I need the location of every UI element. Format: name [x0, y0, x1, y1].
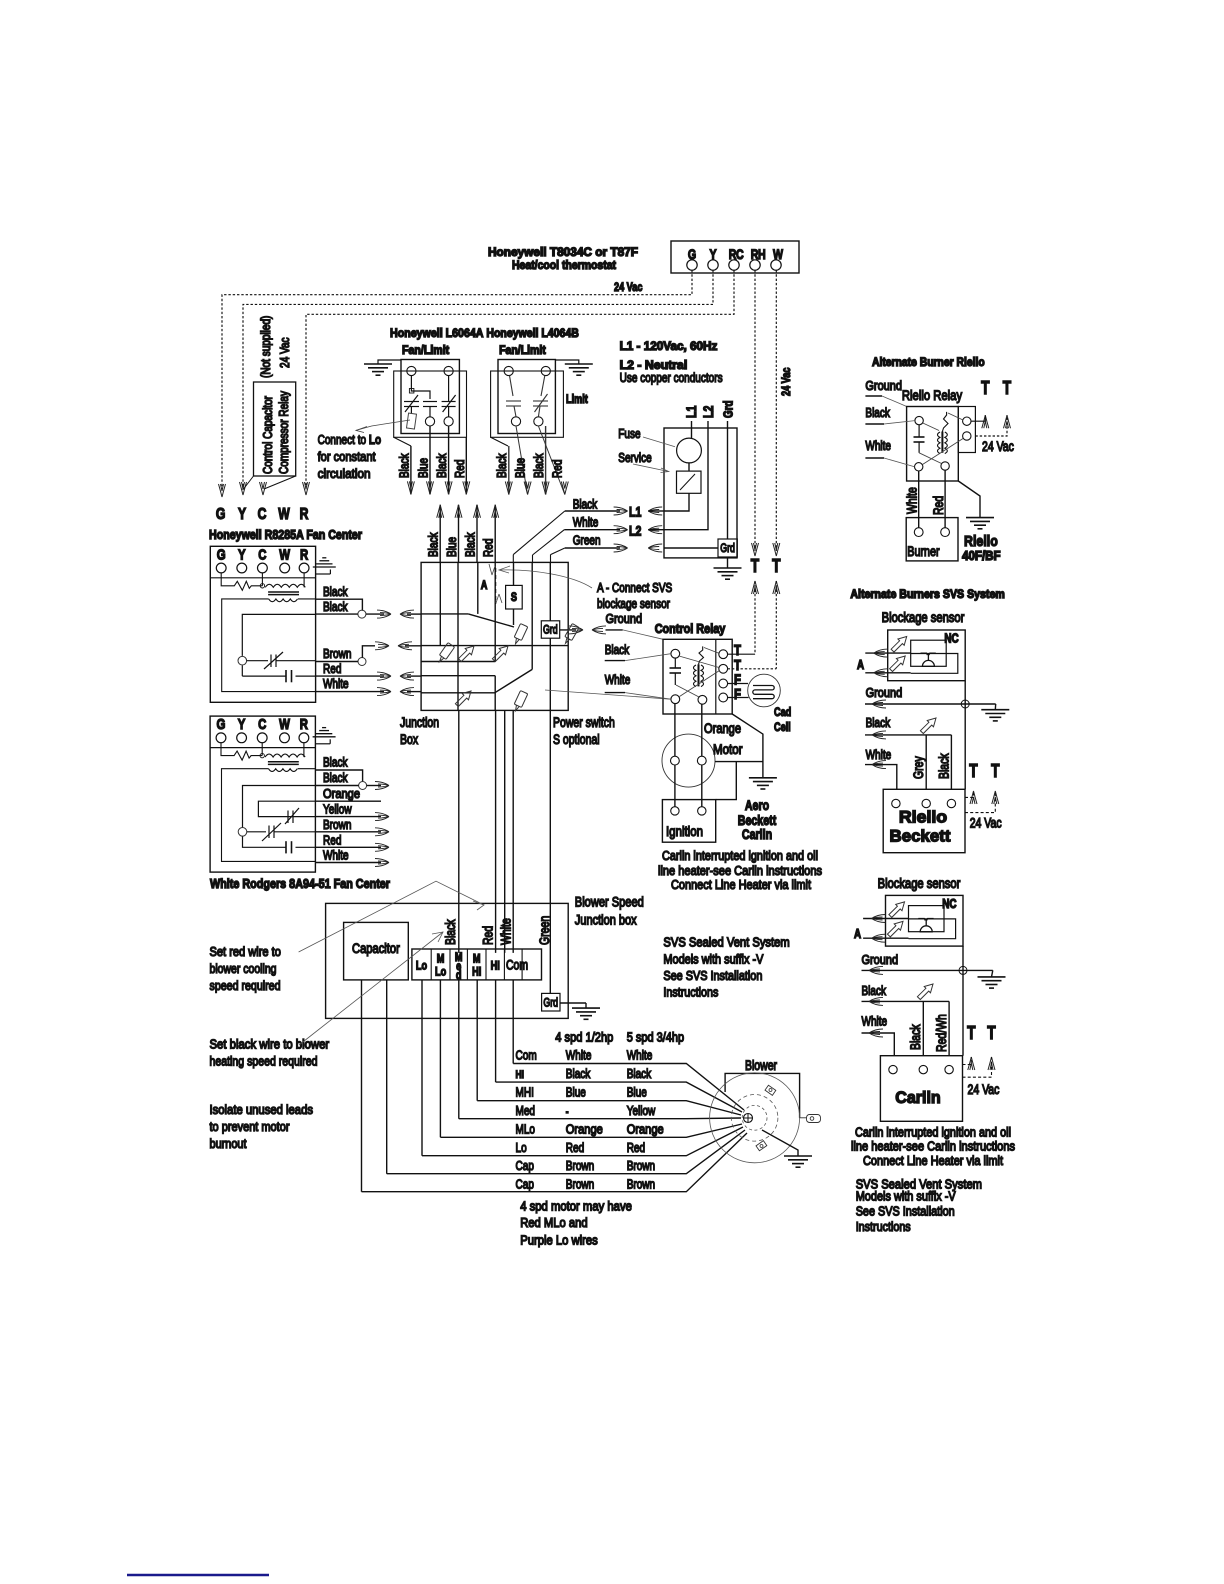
svg-text:W: W: [279, 716, 290, 733]
cad cell: [748, 674, 781, 707]
svg-text:Black: Black: [605, 642, 630, 657]
Grd wire: [727, 421, 729, 539]
svg-text:Fuse: Fuse: [618, 426, 640, 441]
thermostat terminal Y: [708, 260, 718, 270]
L4064B terminal bottom-right: [534, 417, 543, 426]
T T wires labels (RH/W to relay): [752, 543, 759, 556]
svg-text:Fan/Limit: Fan/Limit: [499, 343, 546, 357]
svg-text:A: A: [481, 578, 488, 592]
svg-text:blockage sensor: blockage sensor: [597, 596, 670, 611]
WR lead labels: [323, 755, 360, 863]
WR capacitor: [286, 841, 292, 853]
svg-text:Models with suffix -V: Models with suffix -V: [856, 1188, 956, 1203]
svg-text:HI: HI: [491, 959, 500, 973]
Riello burner wires: [918, 471, 920, 528]
svg-text:24 Vac: 24 Vac: [614, 280, 643, 294]
svg-text:See SVS Installation: See SVS Installation: [856, 1204, 955, 1219]
wires continuing below junction box: [459, 710, 551, 993]
Connect to Lo text: [318, 432, 382, 481]
svg-text:Blockage sensor: Blockage sensor: [878, 876, 961, 891]
svg-text:T: T: [969, 761, 977, 781]
svg-text:White: White: [573, 515, 599, 530]
svg-text:Yellow: Yellow: [323, 802, 352, 817]
wire A dashed (blockage sensor): [495, 568, 497, 604]
junction box: [421, 562, 568, 710]
svg-text:Red: Red: [323, 832, 341, 847]
ground symbol right of L4064B: [555, 360, 592, 375]
speed table rows: [516, 1048, 664, 1192]
svg-text:Carlin: Carlin: [742, 826, 772, 842]
svg-text:Med: Med: [516, 1103, 536, 1118]
thermostat terminal W: [771, 260, 781, 270]
svg-text:White: White: [627, 1048, 653, 1063]
L6064A wire Blue: [429, 426, 431, 494]
blockage sensor Carlin: [886, 895, 964, 946]
R8285A lead Red: [316, 675, 384, 677]
svg-text:Brown: Brown: [627, 1158, 655, 1173]
Honeywell R8285A terminal G: [216, 563, 226, 573]
svg-text:Black: Black: [323, 599, 348, 614]
WR junction circle: [359, 782, 367, 790]
svg-text:Cell: Cell: [774, 720, 791, 734]
svg-text:24 Vac: 24 Vac: [779, 367, 793, 396]
svg-text:Red: Red: [481, 926, 496, 945]
svg-text:Cap: Cap: [516, 1177, 534, 1192]
svg-text:Lo: Lo: [416, 959, 427, 973]
White Rodgers 8A94-51 relay coil resistor: [221, 743, 264, 760]
svg-text:W: W: [278, 506, 290, 523]
L4064B wire Black2: [545, 426, 547, 495]
White Rodgers 8A94-51 fan center box: [210, 716, 315, 872]
thermostat terminal RH: [750, 260, 760, 270]
strip output wires: [362, 980, 514, 1192]
ground symbol left of L6064A: [364, 360, 401, 375]
svg-text:Instructions: Instructions: [663, 985, 718, 1000]
WR lead White: [316, 862, 382, 864]
svg-text:Honeywell R8285A Fan Center: Honeywell R8285A Fan Center: [209, 527, 362, 542]
blower ground: [762, 1130, 798, 1156]
svg-text:Blower: Blower: [745, 1058, 777, 1073]
WR lead Orange: [316, 800, 382, 802]
svg-text:Blue: Blue: [566, 1085, 586, 1100]
svg-text:line heater-see Carlin instruc: line heater-see Carlin instructions: [851, 1139, 1015, 1154]
svg-text:Cad: Cad: [774, 705, 791, 719]
White Rodgers 8A94-51 transformer: [222, 743, 316, 862]
Riello relay box: [907, 407, 959, 482]
L4064B wire arrows: [505, 482, 512, 495]
svg-text:Riello: Riello: [899, 808, 947, 827]
svg-text:T: T: [772, 556, 780, 576]
bundle wires into junction box: [440, 505, 495, 563]
svg-text:Riello Relay: Riello Relay: [902, 388, 962, 403]
Riello burner box: [906, 518, 958, 561]
svg-text:for constant: for constant: [318, 449, 376, 464]
svg-text:HI: HI: [516, 1069, 524, 1081]
svg-text:Black: Black: [323, 770, 348, 785]
L1 L2 Grd rotated labels: [683, 400, 736, 418]
svg-text:White: White: [323, 676, 349, 691]
svg-text:Green: Green: [537, 916, 552, 945]
Honeywell R8285A ground: [313, 558, 336, 574]
svg-text:White: White: [865, 438, 891, 453]
L6064A terminal bottom-right: [444, 417, 453, 426]
L4064B terminal top-right: [541, 366, 550, 375]
relay T wires: [728, 653, 755, 655]
SVS sensor down wire: [964, 681, 966, 790]
svg-text:Brown: Brown: [323, 646, 351, 661]
svg-text:blower cooling: blower cooling: [210, 961, 277, 976]
service switch: [677, 471, 702, 493]
White Rodgers 8A94-51 terminal G: [216, 733, 226, 743]
svg-text:Black: Black: [866, 715, 891, 730]
Carlin sensor down wire: [962, 946, 964, 1056]
svg-text:L2: L2: [700, 405, 716, 418]
svg-text:Power switch: Power switch: [553, 715, 615, 730]
svg-text:Motor: Motor: [713, 742, 743, 757]
svg-text:R: R: [300, 716, 308, 733]
svg-text:24 Vac: 24 Vac: [968, 1082, 1000, 1097]
svg-text:Orange: Orange: [323, 786, 360, 801]
thermostat terminal G: [687, 260, 697, 270]
Carlin box: [880, 1056, 962, 1122]
svg-text:White: White: [866, 747, 892, 762]
L6064A terminal top-left: [407, 366, 416, 375]
svg-text:Black: Black: [908, 1024, 923, 1050]
svg-text:Use copper conductors: Use copper conductors: [620, 370, 723, 385]
svg-text:Connect Line Heater via limit: Connect Line Heater via limit: [863, 1153, 1003, 1168]
blower speed junction box: [326, 903, 569, 1018]
svg-text:Beckett: Beckett: [890, 827, 951, 846]
svg-text:Ground: Ground: [606, 611, 643, 626]
svg-text:to prevent motor: to prevent motor: [210, 1119, 290, 1134]
svg-text:Blue: Blue: [513, 458, 528, 478]
set red leader: [299, 881, 484, 952]
blower housing: [725, 1073, 800, 1117]
svg-text:Isolate unused leads: Isolate unused leads: [210, 1102, 314, 1117]
svg-text:5 spd 3/4hp: 5 spd 3/4hp: [627, 1030, 684, 1045]
svg-text:Black: Black: [627, 1066, 652, 1081]
svg-text:Y: Y: [238, 506, 246, 523]
svg-text:Black: Black: [426, 532, 441, 557]
svg-text:T: T: [1003, 378, 1011, 398]
svg-text:Models with suffix -V: Models with suffix -V: [663, 952, 763, 967]
terminal strip: [412, 949, 542, 980]
svg-text:Red: Red: [452, 460, 467, 478]
svg-text:line heater-see Carlin instruc: line heater-see Carlin instructions: [658, 863, 822, 878]
fan/limit L4064B box: [498, 360, 555, 434]
svg-text:MLo: MLo: [516, 1121, 536, 1136]
svg-text:Lo: Lo: [435, 965, 446, 979]
svg-text:Black: Black: [937, 753, 952, 779]
wire nut below S: [512, 624, 528, 646]
L6064A wire Red: [465, 437, 467, 494]
junction box internal verticals: [440, 562, 532, 710]
svg-text:Red/Wh: Red/Wh: [934, 1014, 949, 1052]
blower junction Grd box: [542, 993, 560, 1011]
svg-text:C: C: [258, 546, 266, 563]
svg-text:SVS Sealed Vent System: SVS Sealed Vent System: [663, 935, 789, 950]
wire from relay to ground: [732, 714, 763, 778]
svg-text:Control Capacitor: Control Capacitor: [260, 396, 275, 474]
svg-text:Blue: Blue: [444, 537, 459, 557]
svg-text:Instructions: Instructions: [856, 1219, 911, 1234]
svg-text:G: G: [217, 716, 226, 733]
svg-text:4 spd motor may have: 4 spd motor may have: [520, 1199, 632, 1214]
svg-text:Carlin interrupted ignition an: Carlin interrupted ignition and oil: [662, 848, 818, 863]
White Rodgers 8A94-51 terminal R: [299, 733, 309, 743]
relay capacitor: [670, 658, 682, 685]
R8285A lead Brown: [358, 658, 366, 666]
svg-text:(Not supplied): (Not supplied): [258, 316, 273, 378]
svg-text:Brown: Brown: [323, 817, 351, 832]
svg-text:4 spd 1/2hp: 4 spd 1/2hp: [555, 1030, 613, 1045]
svg-text:Ground: Ground: [862, 952, 899, 967]
blower hub: [744, 1114, 753, 1123]
fan/limit L6064A box: [401, 360, 459, 434]
svg-text:A: A: [857, 657, 865, 672]
L1 wire into box: [691, 421, 693, 438]
blockage sensor SVS: [888, 630, 966, 681]
svg-text:Honeywell T8034C or T87F: Honeywell T8034C or T87F: [488, 245, 638, 259]
svg-text:Connect Line Heater via limit: Connect Line Heater via limit: [671, 877, 811, 892]
svg-text:Black: Black: [434, 453, 449, 478]
svg-text:24 Vac: 24 Vac: [982, 439, 1014, 454]
capacitor box: [344, 922, 409, 980]
svg-text:speed required: speed required: [210, 978, 281, 993]
svg-text:40F/BF: 40F/BF: [962, 548, 1001, 563]
Honeywell R8285A terminal W: [280, 563, 290, 573]
svg-text:Control Relay: Control Relay: [655, 621, 726, 636]
svg-text:-: -: [566, 1106, 569, 1118]
Honeywell R8285A relay coil resistor: [221, 573, 264, 590]
L6064A fan switch wiring: [404, 376, 456, 417]
svg-text:Alternate Burner Riello: Alternate Burner Riello: [872, 355, 985, 369]
svg-text:Black: Black: [323, 755, 348, 770]
ignition box: [662, 800, 715, 843]
wire Y (dashed): [243, 270, 713, 490]
thermostat terminal RC: [729, 260, 739, 270]
green wire into grd: [664, 547, 718, 549]
svg-text:White Rodgers 8A94-51 Fan Cent: White Rodgers 8A94-51 Fan Center: [210, 876, 390, 891]
R8285A junction circle black: [358, 610, 366, 618]
blower circles: [710, 1073, 800, 1163]
svg-text:Black: Black: [323, 584, 348, 599]
svg-text:Y: Y: [238, 546, 246, 563]
bundle labels into junction box: [426, 532, 496, 557]
WR lead Black1: [316, 770, 363, 782]
svg-text:Black: Black: [531, 453, 546, 478]
svg-text:Aero: Aero: [745, 797, 769, 813]
fuse service box: [664, 428, 737, 558]
svg-text:Connect to Lo: Connect to Lo: [318, 432, 382, 447]
svg-text:R: R: [300, 506, 309, 523]
White Rodgers 8A94-51 terminal C: [257, 733, 267, 743]
junction box Grd: [541, 621, 559, 638]
wire W to T (dashed): [775, 270, 777, 551]
svg-text:S: S: [511, 590, 517, 604]
svg-text:Burner: Burner: [907, 544, 940, 559]
svg-text:Black: Black: [566, 1066, 591, 1081]
svg-text:T: T: [987, 1023, 995, 1043]
footer line: [127, 1574, 269, 1576]
junction box left lead rows: [421, 614, 568, 693]
L6064A wire labels: [397, 453, 468, 478]
svg-text:Grd: Grd: [543, 997, 558, 1009]
Honeywell R8285A terminal R: [299, 563, 309, 573]
svg-text:24 Vac: 24 Vac: [970, 816, 1002, 831]
blower terminals: [765, 1085, 776, 1095]
svg-text:White: White: [862, 1014, 888, 1029]
L6064A wire Black: [410, 446, 412, 494]
relay transformer: [694, 646, 720, 686]
svg-text:F: F: [734, 686, 741, 703]
Honeywell R8285A terminal Y: [237, 563, 247, 573]
svg-text:White: White: [566, 1048, 592, 1063]
svg-text:24 Vac: 24 Vac: [277, 337, 292, 368]
control capacitor / compressor relay box: [244, 316, 296, 489]
L6064A wire Black2: [448, 426, 450, 494]
WR lead Brown: [316, 831, 382, 833]
svg-text:Com: Com: [506, 958, 528, 973]
svg-text:L1: L1: [629, 504, 642, 520]
svg-text:Black: Black: [443, 919, 458, 945]
svg-text:Capacitor: Capacitor: [352, 941, 400, 956]
power switch S: [506, 585, 523, 609]
L4064B inner edges: [491, 371, 564, 437]
L4064B terminal top-left: [504, 366, 513, 375]
svg-text:Compressor Relay: Compressor Relay: [276, 391, 291, 474]
svg-text:Orange: Orange: [566, 1121, 603, 1136]
L2 wire: [664, 421, 708, 530]
svg-text:Yellow: Yellow: [627, 1103, 656, 1118]
fuse: [677, 438, 702, 463]
thermostat Honeywell T8034C/T87F box: [488, 241, 799, 273]
Riello relay transformer: [938, 412, 964, 454]
svg-text:T: T: [751, 556, 759, 576]
svg-text:Cap: Cap: [516, 1158, 534, 1173]
svg-text:G: G: [217, 546, 226, 563]
svg-text:Set red wire to: Set red wire to: [210, 944, 281, 959]
wire G: thermostat G to fan centers (dashed): [222, 270, 692, 492]
svg-text:Alternate Burners SVS System: Alternate Burners SVS System: [850, 587, 1004, 601]
R8285A lead Black1: [316, 599, 363, 611]
svg-text:Fan/Limit: Fan/Limit: [402, 343, 449, 357]
svg-text:T: T: [991, 761, 999, 781]
L6064A terminal bottom-mid: [425, 417, 434, 426]
svg-text:Honeywell L6064A: Honeywell L6064A: [390, 326, 484, 340]
svg-text:Red: Red: [550, 460, 565, 478]
control relay box: [663, 639, 732, 714]
Riello relay capacitor: [914, 425, 942, 464]
White Rodgers 8A94-51 ground: [313, 728, 336, 744]
wire R from RC (dashed): [306, 270, 734, 490]
svg-text:Grd: Grd: [721, 400, 736, 418]
cad cell wires: [728, 683, 748, 685]
diagonal to control relay: [545, 690, 671, 699]
svg-text:Box: Box: [400, 732, 418, 747]
leader arrow to Connect to Lo text: [356, 420, 410, 433]
White Rodgers 8A94-51 terminal W: [280, 733, 290, 743]
svg-text:Green: Green: [573, 533, 601, 548]
svg-text:Set black wire to blower: Set black wire to blower: [210, 1037, 330, 1052]
L6064A Lo plug (connect to Lo): [406, 413, 416, 429]
WR lead Black2: [316, 785, 359, 787]
Riello ground: [958, 481, 980, 518]
arrowheads on G Y C R drops: [219, 484, 226, 497]
svg-text:Blue: Blue: [416, 458, 431, 478]
WR lead Red: [316, 846, 382, 848]
svg-text:Ground: Ground: [866, 685, 903, 700]
svg-text:W: W: [279, 546, 290, 563]
svg-text:G: G: [216, 506, 226, 523]
svg-text:Red: Red: [481, 539, 496, 557]
svg-text:Brown: Brown: [627, 1177, 655, 1192]
L4064B wire labels: [494, 453, 565, 478]
svg-text:MHI: MHI: [516, 1085, 534, 1100]
speed table wires: [362, 1064, 748, 1192]
wire nuts and arrows in junction box: [436, 643, 454, 664]
Honeywell R8285A fan center box: [210, 546, 315, 702]
svg-text:Black: Black: [865, 405, 890, 420]
svg-text:Red: Red: [566, 1140, 584, 1155]
Riello relay terminals: [915, 416, 923, 424]
L4064B terminal bottom-left: [511, 417, 520, 426]
svg-text:Black: Black: [862, 983, 887, 998]
svg-text:Brown: Brown: [566, 1177, 594, 1192]
motor circle: [662, 734, 715, 787]
Honeywell R8285A transformer: [222, 573, 316, 692]
WR relay contact circle: [238, 828, 247, 837]
svg-text:L1: L1: [683, 405, 699, 418]
WR switch contacts: [247, 808, 316, 841]
svg-text:Red: Red: [627, 1140, 645, 1155]
relay terminals: [671, 649, 680, 658]
svg-text:circulation: circulation: [318, 466, 371, 481]
svg-text:Grd: Grd: [543, 625, 558, 637]
svg-text:Orange: Orange: [627, 1121, 664, 1136]
svg-text:Ground: Ground: [865, 378, 902, 393]
diagonals from leads to junction box columns: [513, 511, 565, 562]
R8285A lead White: [316, 691, 384, 693]
svg-text:Grey: Grey: [911, 756, 926, 779]
L4064B wire Black: [508, 446, 510, 495]
svg-text:Lo: Lo: [516, 1140, 527, 1155]
svg-text:White: White: [323, 848, 349, 863]
fan/limit L6064A inner box: [394, 371, 467, 437]
svg-text:M: M: [473, 952, 481, 966]
svg-text:A - Connect SVS: A - Connect SVS: [597, 580, 672, 595]
svg-text:Black: Black: [463, 532, 478, 557]
svg-text:Carlin interrupted ignition an: Carlin interrupted ignition and oil: [855, 1125, 1011, 1140]
Riello Beckett box: [883, 789, 965, 852]
svg-text:burnout: burnout: [210, 1136, 247, 1151]
svg-text:White: White: [605, 672, 631, 687]
svg-text:Carlin: Carlin: [895, 1088, 941, 1107]
motor wires: [674, 704, 676, 757]
svg-text:Black: Black: [494, 453, 509, 478]
motor to ground wire: [715, 761, 763, 763]
svg-text:White: White: [499, 918, 514, 945]
svg-text:Junction: Junction: [400, 715, 439, 730]
set black leader: [299, 932, 443, 1045]
svg-text:Brown: Brown: [566, 1158, 594, 1173]
svg-text:Red: Red: [931, 496, 946, 515]
svg-text:Ignition: Ignition: [666, 824, 703, 839]
svg-text:Service: Service: [618, 450, 651, 465]
svg-text:Blue: Blue: [627, 1085, 647, 1100]
svg-text:Grd: Grd: [720, 543, 735, 555]
R8285A inner circuit: [242, 614, 315, 676]
